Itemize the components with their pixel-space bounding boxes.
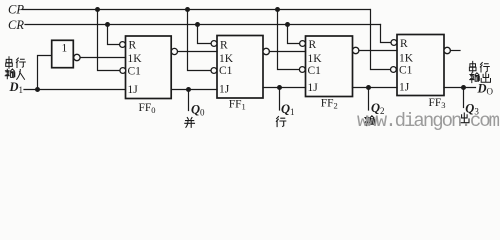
wire FF3 Q to serial output D0 <box>444 87 476 89</box>
wire CP drop to FF0 C1 <box>98 10 121 71</box>
junction CR to FF0 <box>105 22 110 27</box>
wire CR drop to FF0 R <box>108 25 120 45</box>
label Q3 <box>465 101 479 116</box>
svg-text:FF2: FF2 <box>321 98 338 111</box>
label FF0 <box>139 102 156 115</box>
junction CR to FF2 <box>285 22 290 27</box>
junction CP to FF1 <box>185 7 190 12</box>
FF2 C1 input bubble <box>299 67 305 73</box>
svg-text:1: 1 <box>62 43 68 55</box>
svg-text:Q0: Q0 <box>191 103 205 118</box>
FF3 C1 input bubble <box>391 67 397 73</box>
wire FF0 Q to FF1 1J <box>171 89 217 91</box>
wire FF1 Qbar to FF2 1K <box>269 51 305 53</box>
svg-text:1K: 1K <box>128 53 143 65</box>
svg-text:1J: 1J <box>308 82 319 94</box>
label 1 (inverter) <box>62 43 68 55</box>
svg-text:DO: DO <box>477 81 494 96</box>
svg-text:1J: 1J <box>219 83 230 95</box>
FF3 R input bubble <box>391 40 397 46</box>
FF3 pin labels R 1K C1 1J <box>399 38 414 94</box>
wire CR drop to FF3 R (bus end) <box>381 25 392 43</box>
junction CP to FF2 <box>275 7 280 12</box>
wire D1 tap up to inverter input <box>38 56 52 90</box>
FF2 pin labels R 1K C1 1J <box>308 39 323 94</box>
label CR <box>8 18 24 32</box>
输 <box>5 69 15 79</box>
label CP <box>8 3 24 17</box>
svg-text:1K: 1K <box>308 53 323 65</box>
wire CP bus <box>22 9 370 11</box>
串 <box>469 61 476 72</box>
wire FF2 Q to FF3 1J <box>353 87 398 89</box>
svg-text:FF1: FF1 <box>229 99 246 112</box>
wire Q2 drop <box>368 88 370 111</box>
label Q2 <box>371 101 385 116</box>
wire CP drop to FF3 C1 (bus end) <box>371 10 391 70</box>
label D1 <box>9 80 24 95</box>
label FF3 <box>429 97 446 110</box>
svg-text:R: R <box>309 39 317 51</box>
junction Q2 <box>366 85 371 90</box>
junction Q3 <box>461 85 466 90</box>
wire FF1 Q to FF2 1J <box>263 87 306 89</box>
FF2 R input bubble <box>300 41 306 47</box>
FF0 C1 input bubble <box>120 68 126 74</box>
输 <box>470 73 480 83</box>
svg-text:R: R <box>129 40 137 52</box>
flip-flop FF3 box <box>397 35 444 96</box>
FF0 Qbar output bubble <box>171 48 177 54</box>
wire Q0 drop <box>188 90 190 111</box>
flip-flop FF1 box <box>217 36 263 99</box>
串 <box>6 57 13 68</box>
junction CR to FF1 <box>195 22 200 27</box>
svg-text:1J: 1J <box>128 84 139 96</box>
svg-text:FF3: FF3 <box>429 97 446 110</box>
svg-text:www.diangon.com: www.diangon.com <box>357 110 500 132</box>
label FF2 <box>321 98 338 111</box>
svg-text:C1: C1 <box>219 65 233 77</box>
svg-text:C1: C1 <box>308 65 322 77</box>
行 <box>480 63 489 73</box>
wire FF3 Qbar stub <box>450 50 460 52</box>
inverter output bubble <box>74 54 80 60</box>
wire inverter output to FF0 1K <box>80 57 125 59</box>
svg-text:FF0: FF0 <box>139 102 156 115</box>
flip-flop FF0 box <box>126 36 172 99</box>
出 <box>481 73 490 83</box>
junction CP to FF0 <box>95 7 100 12</box>
wire Q1 drop <box>279 88 281 111</box>
svg-text:D1: D1 <box>9 80 24 95</box>
label Q0 <box>191 103 205 118</box>
svg-text:1K: 1K <box>219 53 234 65</box>
FF0 pin labels R 1K C1 1J <box>128 40 143 96</box>
junction Q1 <box>277 85 282 90</box>
wire FF0 Qbar to FF1 1K <box>178 51 218 53</box>
svg-text:Q1: Q1 <box>281 102 295 117</box>
label serial-output 串行输出 <box>469 61 490 82</box>
label D0 <box>477 81 494 96</box>
svg-text:1J: 1J <box>399 82 410 94</box>
FF1 C1 input bubble <box>211 68 217 74</box>
wire CP drop to FF2 C1 <box>278 10 300 70</box>
FF2 Qbar output bubble <box>353 47 359 53</box>
入 <box>17 70 25 80</box>
FF1 R input bubble <box>211 41 217 47</box>
svg-text:C1: C1 <box>128 65 142 77</box>
svg-text:1K: 1K <box>399 52 414 64</box>
label serial-input 串行输入 D1 <box>5 57 25 80</box>
FF0 R input bubble <box>120 42 126 48</box>
wire CR drop to FF2 R <box>288 25 300 44</box>
watermark www.diangon.com <box>357 110 500 132</box>
junction Q0 <box>186 87 191 92</box>
label Q1 <box>281 102 295 117</box>
wire CR drop to FF1 R <box>198 25 212 44</box>
label 出 <box>460 113 469 123</box>
svg-text:C1: C1 <box>399 65 413 77</box>
svg-text:R: R <box>400 38 408 50</box>
svg-text:R: R <box>220 39 228 51</box>
inverter U1 box <box>52 40 74 67</box>
wire CP drop to FF1 C1 <box>188 10 211 71</box>
label FF1 <box>229 99 246 112</box>
flip-flop FF2 box <box>306 36 353 97</box>
svg-text:CR: CR <box>8 18 24 32</box>
label 行 <box>276 117 285 127</box>
行 <box>16 58 25 68</box>
wire Q3 drop <box>463 88 465 108</box>
FF1 pin labels R 1K C1 1J <box>219 39 234 95</box>
wire FF2 Qbar to FF3 1K <box>359 50 397 52</box>
label 并 <box>185 118 195 128</box>
wire serial input D1 to FF0 1J <box>24 89 126 91</box>
label 输 <box>365 116 375 126</box>
wire CR bus <box>25 24 381 26</box>
FF1 Qbar output bubble <box>263 48 269 54</box>
FF3 Qbar output bubble <box>444 47 450 53</box>
junction on D1 line <box>35 87 40 92</box>
